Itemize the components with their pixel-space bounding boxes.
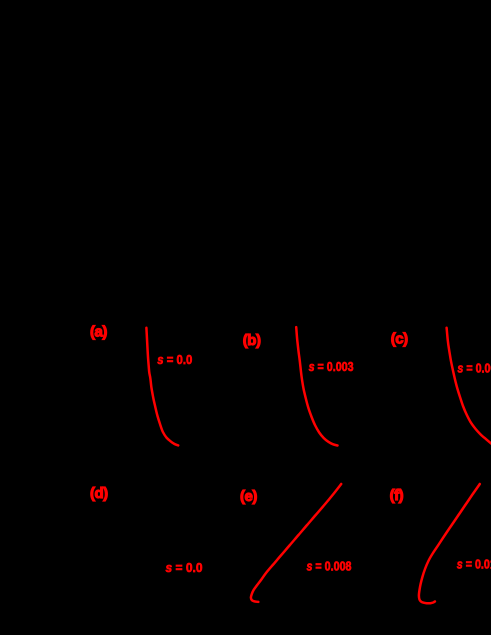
- svg-text:(d): (d): [90, 485, 108, 502]
- svg-text:s = 0.0: s = 0.0: [166, 560, 203, 575]
- svg-text:(a): (a): [90, 324, 107, 341]
- svg-text:s = 0.008: s = 0.008: [307, 559, 352, 574]
- svg-text:(b): (b): [243, 332, 261, 349]
- svg-text:s = 0.006: s = 0.006: [457, 361, 491, 376]
- svg-text:s = 0.0: s = 0.0: [157, 352, 192, 367]
- svg-text:s = 0.003: s = 0.003: [309, 359, 354, 374]
- curve s=0.012 panel f: [419, 484, 480, 603]
- curve s=0.006 panel c (clipped at right edge): [447, 328, 491, 445]
- svg-text:(f): (f): [390, 487, 404, 504]
- svg-text:(e): (e): [240, 488, 257, 505]
- curve s=0.008 panel e: [251, 484, 341, 602]
- svg-text:s = 0.012: s = 0.012: [457, 557, 491, 572]
- curve s=0.003 panel b: [296, 327, 337, 445]
- svg-text:(c): (c): [391, 331, 408, 348]
- curve s=0.0 panel a: [146, 328, 178, 446]
